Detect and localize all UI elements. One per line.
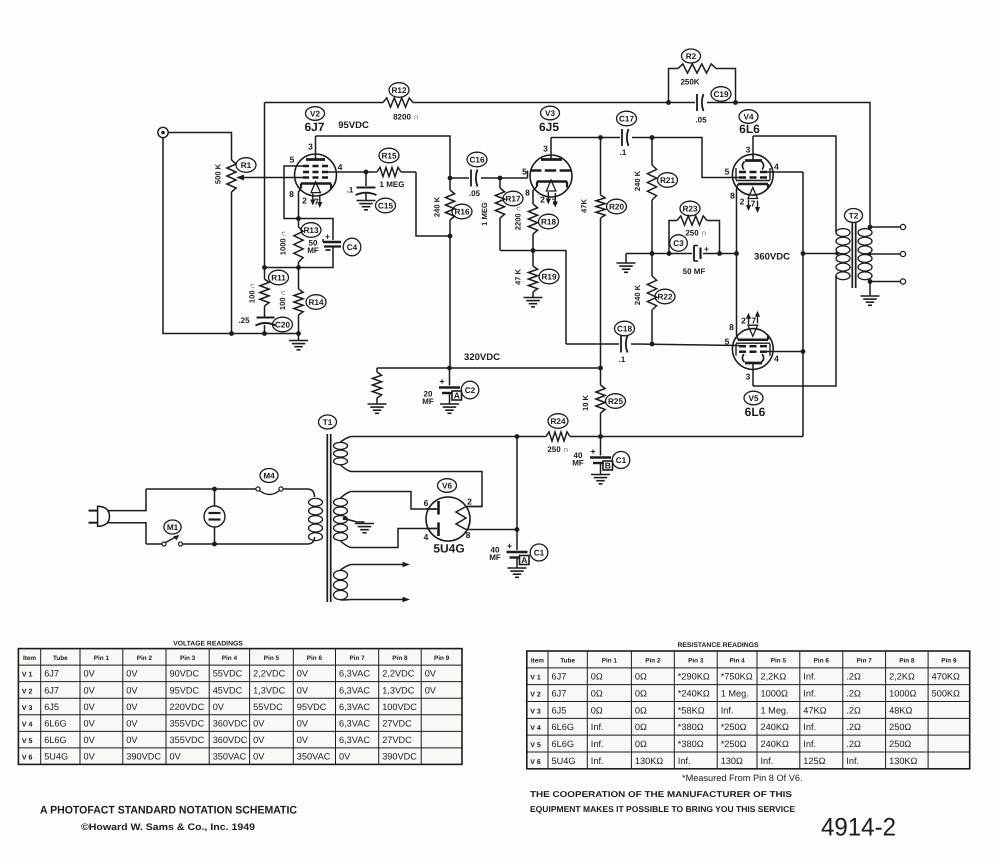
svg-text:C19: C19 bbox=[713, 90, 728, 99]
V3 grid dashes bbox=[530, 169, 541, 172]
svg-text:6L6G: 6L6G bbox=[44, 718, 66, 728]
node V2 cathode junction bbox=[296, 216, 301, 221]
R13 label bbox=[301, 223, 321, 238]
svg-text:0V: 0V bbox=[425, 685, 437, 695]
svg-text:6L6: 6L6 bbox=[745, 405, 766, 419]
svg-text:7: 7 bbox=[751, 316, 756, 326]
svg-text:B: B bbox=[605, 461, 611, 471]
svg-text:.1: .1 bbox=[347, 186, 354, 195]
wire AC bottom rail switch side bbox=[146, 543, 162, 545]
node R21 R22 junction bbox=[650, 251, 655, 256]
svg-text:2: 2 bbox=[741, 316, 746, 326]
svg-text:1,3VDC: 1,3VDC bbox=[382, 685, 415, 695]
svg-text:R1: R1 bbox=[241, 161, 252, 170]
node T2 center tap bbox=[835, 252, 839, 256]
pilot lamp M2 bbox=[214, 489, 216, 506]
svg-text:1000 ∩: 1000 ∩ bbox=[279, 231, 288, 256]
svg-text:Inf.: Inf. bbox=[803, 739, 816, 749]
fuse M4 bbox=[256, 487, 260, 491]
svg-text:6,3VAC: 6,3VAC bbox=[339, 702, 370, 712]
svg-text:6J7: 6J7 bbox=[304, 120, 324, 134]
V2 heater arrow pin2 bbox=[312, 194, 314, 202]
wire R15 jog bbox=[416, 172, 450, 236]
svg-text:3: 3 bbox=[746, 145, 751, 155]
svg-text:MF: MF bbox=[489, 553, 501, 562]
svg-text:0Ω: 0Ω bbox=[591, 672, 603, 682]
wire plug top bbox=[107, 489, 146, 511]
svg-text:500KΩ: 500KΩ bbox=[932, 688, 960, 698]
svg-text:C4: C4 bbox=[347, 243, 358, 252]
svg-text:+: + bbox=[507, 541, 512, 551]
svg-text:0Ω: 0Ω bbox=[591, 688, 603, 698]
node V5 screen junction bbox=[801, 349, 806, 354]
svg-text:355VDC: 355VDC bbox=[170, 735, 205, 745]
svg-text:100 ∩: 100 ∩ bbox=[278, 290, 287, 310]
svg-text:R18: R18 bbox=[541, 217, 556, 226]
C2 label bbox=[461, 381, 479, 399]
wire C16 to V3 grid bbox=[500, 177, 528, 179]
svg-text:0V: 0V bbox=[170, 751, 182, 761]
svg-text:R15: R15 bbox=[381, 151, 396, 160]
svg-text:Pin 5: Pin 5 bbox=[264, 655, 280, 662]
R11 label bbox=[269, 270, 289, 285]
svg-text:M4: M4 bbox=[263, 471, 275, 480]
svg-text:6,3VAC: 6,3VAC bbox=[339, 669, 370, 679]
svg-text:2: 2 bbox=[540, 195, 545, 205]
svg-text:0Ω: 0Ω bbox=[635, 688, 647, 698]
svg-text:V 5: V 5 bbox=[530, 742, 541, 749]
switch M1 bbox=[162, 542, 166, 546]
svg-text:1 MEG: 1 MEG bbox=[380, 180, 405, 189]
svg-text:355VDC: 355VDC bbox=[170, 718, 205, 728]
svg-text:0V: 0V bbox=[253, 751, 265, 761]
T1 5V bottom lead bbox=[341, 465, 352, 472]
svg-text:A: A bbox=[454, 391, 460, 401]
V2 screen dashes bbox=[303, 171, 309, 174]
transformer T2 designator bbox=[845, 209, 863, 223]
node R21 top bbox=[650, 135, 655, 140]
svg-text:0V: 0V bbox=[84, 669, 96, 679]
node R16 mid bbox=[448, 234, 453, 239]
R16 label bbox=[452, 204, 472, 219]
resistor R25 bbox=[600, 368, 602, 385]
ground C15 bbox=[357, 200, 376, 202]
capacitor C4 bbox=[323, 241, 341, 244]
capacitor C1 section A bbox=[516, 530, 518, 551]
ground T1 center tap bbox=[355, 523, 374, 525]
svg-text:M1: M1 bbox=[167, 523, 179, 532]
resistor R23 loop bbox=[669, 221, 677, 254]
V4 cathode lead bbox=[737, 184, 739, 254]
svg-text:0V: 0V bbox=[297, 718, 309, 728]
ground C1B bbox=[591, 474, 610, 476]
svg-text:V 6: V 6 bbox=[530, 759, 541, 766]
V2 filament bbox=[311, 182, 320, 193]
svg-text:C17: C17 bbox=[619, 114, 634, 123]
tube V2 6J7 envelope bbox=[295, 154, 337, 196]
svg-text:250Ω: 250Ω bbox=[889, 722, 911, 732]
node C3 right bbox=[717, 251, 722, 256]
ground V2 cathode rail bbox=[298, 334, 300, 341]
node pilot bottom bbox=[212, 542, 217, 547]
svg-text:EQUIPMENT MAKES IT POSSIBLE: EQUIPMENT MAKES IT POSSIBLE TO BRING YOU… bbox=[530, 804, 795, 814]
svg-text:Pin 6: Pin 6 bbox=[307, 655, 323, 662]
T1 6.3V bottom lead bbox=[341, 599, 352, 602]
node 320VDC tap bbox=[598, 366, 603, 371]
svg-text:Pin 8: Pin 8 bbox=[899, 657, 915, 664]
ground bias network bbox=[625, 254, 627, 263]
svg-text:Pin 6: Pin 6 bbox=[814, 657, 830, 664]
M1 label bbox=[164, 520, 181, 534]
svg-text:0V: 0V bbox=[297, 669, 309, 679]
svg-text:6,3VAC: 6,3VAC bbox=[339, 685, 370, 695]
ground T2 secondary bbox=[869, 282, 871, 296]
node feedback-cathode junction bbox=[262, 265, 267, 270]
V4 screen dashes bbox=[739, 171, 746, 174]
svg-text:130KΩ: 130KΩ bbox=[635, 756, 663, 766]
V2 grid dashes bbox=[303, 176, 309, 179]
svg-text:Inf.: Inf. bbox=[803, 722, 816, 732]
svg-text:2200 ∩: 2200 ∩ bbox=[514, 206, 523, 231]
svg-text:Pin 9: Pin 9 bbox=[941, 657, 957, 664]
svg-text:Pin 2: Pin 2 bbox=[645, 657, 661, 664]
wire T2 secondary mid tap bbox=[869, 253, 901, 255]
V4 designator bbox=[739, 110, 758, 124]
svg-text:.2Ω: .2Ω bbox=[846, 688, 861, 698]
wire AC top rail bbox=[146, 488, 256, 490]
resistor R13 bbox=[298, 219, 300, 228]
svg-text:2: 2 bbox=[467, 497, 472, 507]
V6 plate pin4 bbox=[437, 523, 440, 537]
svg-text:3: 3 bbox=[308, 142, 313, 152]
ground bleeder bbox=[368, 403, 387, 405]
R15 label bbox=[379, 148, 399, 163]
svg-text:Inf.: Inf. bbox=[591, 739, 604, 749]
V4 grid dashes bbox=[739, 176, 746, 179]
svg-text:+: + bbox=[704, 244, 709, 254]
svg-text:27VDC: 27VDC bbox=[382, 718, 412, 728]
svg-text:V 2: V 2 bbox=[530, 691, 541, 698]
V5 screen dashes bbox=[739, 350, 746, 353]
V4 beam plates bbox=[742, 162, 744, 170]
V2 suppressor tie wire bbox=[284, 166, 303, 219]
svg-text:90VDC: 90VDC bbox=[170, 669, 200, 679]
V5 grid dashes bbox=[739, 345, 746, 348]
svg-text:1 Meg.: 1 Meg. bbox=[761, 705, 789, 715]
svg-text:Item: Item bbox=[531, 657, 544, 664]
V5 beam plates bbox=[742, 354, 744, 362]
T1 HV top lead bbox=[341, 492, 352, 499]
svg-text:R24: R24 bbox=[550, 417, 565, 426]
svg-text:VOLTAGE READINGS: VOLTAGE READINGS bbox=[173, 641, 243, 648]
svg-text:0V: 0V bbox=[126, 702, 138, 712]
svg-text:V2: V2 bbox=[310, 109, 320, 118]
node R13 bottom bbox=[296, 265, 301, 270]
svg-text:0Ω: 0Ω bbox=[591, 705, 603, 715]
svg-text:0V: 0V bbox=[84, 735, 96, 745]
svg-text:6L6G: 6L6G bbox=[552, 739, 574, 749]
terminal T2 top bbox=[900, 224, 905, 229]
V3 heater arrow pin7 bbox=[554, 193, 556, 203]
resistor R14 bbox=[298, 268, 300, 290]
R20 label bbox=[607, 199, 627, 214]
svg-text:2,2VDC: 2,2VDC bbox=[253, 669, 286, 679]
svg-text:130Ω: 130Ω bbox=[721, 756, 743, 766]
svg-text:C20: C20 bbox=[275, 320, 290, 329]
svg-text:+: + bbox=[439, 376, 444, 386]
svg-text:4: 4 bbox=[424, 532, 429, 542]
C19 label bbox=[711, 87, 731, 102]
svg-text:R13: R13 bbox=[303, 226, 318, 235]
svg-text:Inf.: Inf. bbox=[721, 705, 734, 715]
svg-text:240KΩ: 240KΩ bbox=[761, 739, 789, 749]
svg-text:1,3VDC: 1,3VDC bbox=[253, 685, 286, 695]
capacitor C1 section B bbox=[600, 437, 602, 456]
V3 heater arrow pin2 bbox=[547, 192, 549, 200]
svg-text:V 2: V 2 bbox=[22, 688, 33, 695]
svg-text:6L6: 6L6 bbox=[739, 122, 760, 136]
svg-text:V 6: V 6 bbox=[22, 754, 33, 761]
svg-text:*Measured From Pin 8 Of V6.: *Measured From Pin 8 Of V6. bbox=[682, 773, 803, 783]
wire jack to R1 top bbox=[168, 133, 231, 161]
wire V4 screen bbox=[764, 171, 803, 173]
svg-text:0V: 0V bbox=[213, 702, 225, 712]
svg-text:95VDC: 95VDC bbox=[338, 120, 369, 131]
svg-text:240 K: 240 K bbox=[433, 196, 442, 217]
input jack J bbox=[158, 127, 168, 137]
wire inverter tap bbox=[500, 251, 566, 345]
C18 label bbox=[615, 321, 635, 336]
wire B+ to riser bbox=[601, 436, 804, 438]
node C18 junction bbox=[650, 342, 655, 347]
V5 filament bbox=[748, 325, 758, 336]
C17 label bbox=[617, 111, 637, 126]
svg-text:350VAC: 350VAC bbox=[297, 751, 331, 761]
svg-text:6,3VAC: 6,3VAC bbox=[339, 718, 370, 728]
resistor R11 bbox=[264, 268, 266, 280]
wire V4 plate to T2 bbox=[753, 136, 836, 232]
table resistance readings bbox=[527, 651, 970, 769]
node R17 top bbox=[498, 176, 503, 181]
node T2 secondary top bbox=[868, 225, 873, 230]
svg-text:6J7: 6J7 bbox=[552, 672, 567, 682]
svg-text:MF: MF bbox=[572, 459, 584, 468]
wire V2 pin4 bbox=[328, 171, 366, 173]
svg-text:.1: .1 bbox=[620, 148, 627, 157]
capacitor C2 bbox=[449, 368, 451, 386]
svg-text:Pin 1: Pin 1 bbox=[602, 657, 618, 664]
svg-text:.2Ω: .2Ω bbox=[846, 672, 861, 682]
V3 filament bbox=[546, 180, 555, 191]
svg-text:5U4G: 5U4G bbox=[552, 756, 576, 766]
node ground rail junction bbox=[296, 331, 301, 336]
svg-text:C2: C2 bbox=[465, 386, 476, 395]
svg-text:Pin 2: Pin 2 bbox=[137, 655, 153, 662]
wire 5V to B+ line bbox=[351, 436, 517, 438]
svg-text:THE COOPERATION OF THE MAN: THE COOPERATION OF THE MANUFACTURER OF T… bbox=[530, 789, 792, 799]
T1 HV bottom lead bbox=[341, 541, 352, 548]
svg-text:Pin 8: Pin 8 bbox=[392, 655, 408, 662]
svg-text:240KΩ: 240KΩ bbox=[761, 722, 789, 732]
capacitor C15 bbox=[365, 172, 367, 186]
svg-text:*380Ω: *380Ω bbox=[678, 722, 704, 732]
T1 HV winding bbox=[334, 498, 348, 506]
svg-text:*240KΩ: *240KΩ bbox=[678, 688, 710, 698]
svg-text:6J5: 6J5 bbox=[44, 702, 59, 712]
wire V2 plate to C16 bbox=[316, 136, 451, 178]
node C20 bottom bbox=[262, 331, 267, 336]
svg-text:350VAC: 350VAC bbox=[213, 751, 247, 761]
R14 label bbox=[306, 295, 326, 310]
R12 label bbox=[389, 83, 409, 98]
svg-text:100VDC: 100VDC bbox=[382, 702, 417, 712]
wire V3 plate line bbox=[551, 137, 620, 139]
node R16 top bbox=[448, 176, 453, 181]
C1A label bbox=[530, 544, 548, 561]
R2 label bbox=[682, 49, 701, 63]
V5 cathode bbox=[738, 338, 768, 341]
svg-text:48KΩ: 48KΩ bbox=[889, 705, 912, 715]
C16 label bbox=[467, 152, 487, 167]
R17 label bbox=[503, 191, 523, 206]
svg-text:7: 7 bbox=[314, 197, 319, 207]
V6 plate pin6 bbox=[437, 501, 440, 515]
svg-text:C1: C1 bbox=[616, 456, 627, 465]
svg-text:500 K: 500 K bbox=[214, 163, 223, 184]
svg-text:RESISTANCE READINGS: RESISTANCE READINGS bbox=[677, 642, 759, 649]
svg-text:8: 8 bbox=[729, 322, 734, 332]
svg-text:R14: R14 bbox=[308, 298, 323, 307]
svg-text:C16: C16 bbox=[469, 155, 484, 164]
svg-text:6J5: 6J5 bbox=[552, 705, 567, 715]
svg-text:V 1: V 1 bbox=[22, 672, 33, 679]
svg-text:*380Ω: *380Ω bbox=[678, 739, 704, 749]
V3 cathode bbox=[537, 180, 567, 183]
svg-text:7: 7 bbox=[552, 197, 557, 207]
svg-text:0V: 0V bbox=[84, 751, 96, 761]
svg-text:320VDC: 320VDC bbox=[464, 352, 500, 363]
svg-text:Inf.: Inf. bbox=[846, 756, 859, 766]
svg-text:R16: R16 bbox=[454, 207, 469, 216]
svg-text:6J7: 6J7 bbox=[44, 669, 59, 679]
svg-text:360VDC: 360VDC bbox=[754, 252, 790, 263]
V5 cathode lead bbox=[737, 254, 739, 340]
svg-text:390VDC: 390VDC bbox=[126, 751, 161, 761]
wire jack ground drop bbox=[163, 138, 299, 334]
svg-text:2: 2 bbox=[302, 196, 307, 206]
svg-text:0V: 0V bbox=[297, 735, 309, 745]
V5 heater arrow pin7 bbox=[757, 315, 759, 323]
T1 6.3V winding bbox=[334, 570, 348, 579]
wire feedback to T2 bbox=[736, 103, 871, 228]
V2 cathode bbox=[301, 182, 331, 185]
C15 label bbox=[376, 198, 396, 213]
svg-text:5U4G: 5U4G bbox=[44, 751, 68, 761]
ground C1A bbox=[508, 567, 527, 569]
svg-text:2,2KΩ: 2,2KΩ bbox=[889, 672, 915, 682]
svg-text:240 K: 240 K bbox=[633, 170, 642, 191]
svg-text:V 3: V 3 bbox=[530, 708, 541, 715]
svg-text:.2Ω: .2Ω bbox=[846, 739, 861, 749]
node C15 top bbox=[364, 170, 369, 175]
R21 label bbox=[658, 173, 678, 188]
transformer T1 designator bbox=[319, 415, 337, 429]
svg-text:.2Ω: .2Ω bbox=[846, 722, 861, 732]
svg-text:6L6G: 6L6G bbox=[552, 722, 574, 732]
svg-text:0V: 0V bbox=[84, 685, 96, 695]
wire B+ drop to pin8 bbox=[516, 437, 518, 530]
svg-text:R20: R20 bbox=[609, 202, 624, 211]
svg-text:0V: 0V bbox=[253, 735, 265, 745]
svg-text:250Ω: 250Ω bbox=[889, 739, 911, 749]
capacitor C19 bbox=[669, 102, 696, 104]
svg-text:C18: C18 bbox=[617, 324, 632, 333]
svg-text:6J7: 6J7 bbox=[44, 685, 59, 695]
svg-text:Item: Item bbox=[23, 655, 36, 662]
svg-text:4: 4 bbox=[774, 354, 779, 364]
V4 cathode bbox=[738, 183, 768, 186]
resistor R12 bbox=[265, 102, 384, 104]
capacitor C4 loop bbox=[299, 219, 334, 241]
R24 label bbox=[548, 414, 568, 429]
resistor R16 bbox=[449, 178, 451, 190]
svg-text:0V: 0V bbox=[297, 685, 309, 695]
svg-text:125Ω: 125Ω bbox=[803, 756, 825, 766]
node C19 right bbox=[733, 100, 738, 105]
svg-text:V3: V3 bbox=[545, 109, 555, 118]
svg-text:2,2KΩ: 2,2KΩ bbox=[761, 672, 787, 682]
T2 primary winding bbox=[836, 229, 850, 237]
ground C2 bbox=[440, 403, 459, 405]
svg-text:V5: V5 bbox=[748, 394, 758, 403]
svg-text:2,2VDC: 2,2VDC bbox=[382, 669, 415, 679]
svg-text:1000Ω: 1000Ω bbox=[761, 688, 788, 698]
svg-text:*250Ω: *250Ω bbox=[721, 739, 747, 749]
R23 label bbox=[680, 201, 700, 216]
svg-text:V 1: V 1 bbox=[530, 675, 541, 682]
svg-text:0Ω: 0Ω bbox=[635, 705, 647, 715]
R1 label bbox=[236, 158, 256, 173]
V3 cathode lead bbox=[533, 187, 537, 205]
resistor R2 loop bbox=[669, 69, 679, 103]
V5 plate bbox=[745, 362, 762, 365]
resistor R18 bbox=[528, 204, 537, 234]
svg-text:0Ω: 0Ω bbox=[635, 672, 647, 682]
svg-text:55VDC: 55VDC bbox=[253, 702, 283, 712]
svg-text:R25: R25 bbox=[608, 397, 623, 406]
node cathode bus bbox=[734, 251, 739, 256]
svg-text:3: 3 bbox=[746, 372, 751, 382]
V2 plate bbox=[306, 158, 325, 161]
svg-text:R21: R21 bbox=[660, 176, 675, 185]
wire V5 plate to T2 bbox=[753, 276, 836, 386]
svg-text:.05: .05 bbox=[469, 189, 481, 198]
svg-text:©Howard W. Sams & Co., Inc. 19: ©Howard W. Sams & Co., Inc. 1949 bbox=[81, 822, 255, 833]
svg-text:10 K: 10 K bbox=[581, 394, 590, 411]
svg-text:360VDC: 360VDC bbox=[213, 735, 248, 745]
tube V3 6J5 envelope bbox=[530, 155, 572, 197]
svg-text:5: 5 bbox=[725, 337, 730, 347]
table voltage readings bbox=[18, 649, 462, 765]
terminal T2 bottom bbox=[900, 279, 905, 284]
svg-text:4: 4 bbox=[338, 162, 343, 172]
capacitor C3 bbox=[693, 246, 695, 262]
svg-text:Inf.: Inf. bbox=[678, 756, 691, 766]
svg-text:250 ∩: 250 ∩ bbox=[547, 445, 568, 454]
svg-text:C3: C3 bbox=[673, 239, 684, 248]
svg-text:.2Ω: .2Ω bbox=[846, 705, 861, 715]
svg-text:6: 6 bbox=[424, 498, 429, 508]
